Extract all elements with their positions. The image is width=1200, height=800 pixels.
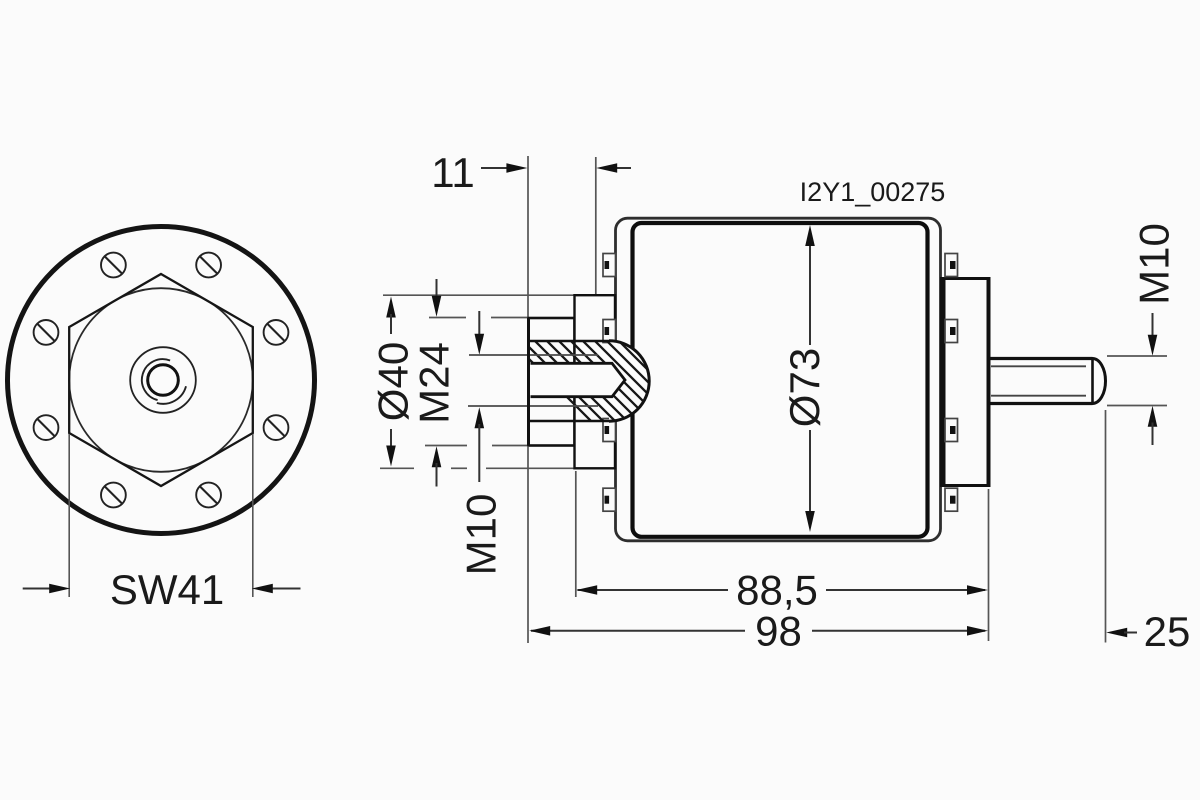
extension line boss right face (x=575.8) xyxy=(575,471,577,597)
right tab 3 xyxy=(945,419,958,442)
extension line boss top (y=295) xyxy=(383,294,574,296)
SW41 right arrow xyxy=(270,588,301,590)
dim 98 line and arrows xyxy=(531,630,745,632)
rear plate left edge xyxy=(942,280,946,484)
svg-text:Ø40: Ø40 xyxy=(370,342,417,421)
shaft end dome xyxy=(1093,359,1106,404)
motor body outer outline xyxy=(616,218,941,541)
thread dome white fill xyxy=(609,341,649,421)
extension line flange left face (x=528) xyxy=(527,156,529,318)
screw 7 (292.5 deg) xyxy=(196,483,221,508)
dim M24 top arrow xyxy=(436,279,438,300)
shaft end face xyxy=(1091,359,1094,404)
rear plate xyxy=(942,279,989,486)
hub outer circle xyxy=(130,347,196,413)
dim M24 bottom arrow xyxy=(432,446,442,467)
extension line shaft tip (x=1105.5) xyxy=(1105,410,1107,643)
svg-text:Ø73: Ø73 xyxy=(781,348,828,427)
inscribed circle of hex xyxy=(69,288,253,472)
hub thread arc outer xyxy=(157,386,186,404)
thread cylinder bottom edge xyxy=(529,420,610,422)
M10 shaft ext line top xyxy=(1107,355,1167,357)
dim 88,5 line and arrows xyxy=(578,589,729,591)
screw 5 (202.5 deg) xyxy=(34,415,59,440)
svg-text:M10: M10 xyxy=(458,494,505,576)
screw 1 (22.5 deg) xyxy=(264,320,289,345)
svg-text:98: 98 xyxy=(755,608,802,655)
flange plate xyxy=(529,318,575,446)
screw 8 (337.5 deg) xyxy=(264,415,289,440)
thread hatch xyxy=(498,328,814,440)
extension line boss bottom (y=468.3) xyxy=(380,467,414,469)
left tab 2 xyxy=(603,320,616,343)
flange outer circle xyxy=(8,227,315,534)
rear plate right edge xyxy=(987,277,991,487)
screw 3 (112.5 deg) xyxy=(101,253,126,278)
dim D73 line xyxy=(809,240,811,345)
left tab 4 xyxy=(603,488,616,511)
thread dome outline xyxy=(609,341,649,421)
thread root line bottom xyxy=(468,405,598,407)
M10 shaft ext line bottom xyxy=(1107,405,1167,407)
svg-text:11: 11 xyxy=(431,149,475,196)
right tab 1 xyxy=(945,254,958,277)
shaft thread root bottom xyxy=(991,395,1086,397)
shaft bottom edge xyxy=(990,402,1093,405)
svg-text:I2Y1_00275: I2Y1_00275 xyxy=(800,177,946,207)
svg-text:25: 25 xyxy=(1144,608,1191,655)
dim D73 bottom arrow xyxy=(805,511,815,532)
screw 2 (67.5 deg) xyxy=(196,253,221,278)
SW41 extension line left xyxy=(68,434,70,597)
dim 11 right arrow xyxy=(614,167,631,169)
dim D73 top arrow xyxy=(805,225,815,246)
shaft top edge xyxy=(990,357,1093,360)
svg-text:SW41: SW41 xyxy=(110,566,224,613)
svg-text:M10: M10 xyxy=(1131,223,1178,305)
dim M10 left top arrow xyxy=(478,311,480,338)
motor body inner thick outline xyxy=(633,223,928,537)
dim D40 bottom arrow xyxy=(390,429,392,449)
screw 4 (157.5 deg) xyxy=(34,320,59,345)
bore xyxy=(531,363,626,396)
SW41 extension line right xyxy=(252,434,254,597)
hub thread arc inner xyxy=(142,359,170,400)
thread cylinder top edge xyxy=(529,340,610,342)
dim 11 left arrow xyxy=(481,167,510,169)
hub bore circle xyxy=(148,365,179,396)
right tab 4 xyxy=(945,488,958,511)
left tab 3 xyxy=(603,419,616,442)
M10 right top arrow xyxy=(1152,313,1154,339)
flange left face redraw xyxy=(527,318,530,446)
hex nut xyxy=(69,274,253,486)
extension line flange top dashed (y=317.5) xyxy=(429,317,466,319)
screw 6 (247.5 deg) xyxy=(101,483,126,508)
dim 25 arrow xyxy=(1106,628,1127,638)
extension line body front face (x=595.8) xyxy=(595,157,597,295)
dim D40 top arrow xyxy=(386,297,396,318)
SW41 left arrow xyxy=(23,588,53,590)
extension line plate right face (x=988.5) xyxy=(988,489,990,641)
svg-text:M24: M24 xyxy=(411,342,458,424)
left tab 1 xyxy=(603,254,616,277)
boss D40 xyxy=(575,295,616,468)
shaft thread root top xyxy=(991,365,1086,367)
right tab 2 xyxy=(945,320,958,343)
thread root line top xyxy=(469,354,598,356)
svg-text:88,5: 88,5 xyxy=(736,567,818,614)
M10 right bottom arrow xyxy=(1148,406,1158,427)
dim M10 left bottom arrow xyxy=(475,407,485,428)
extension line flange bottom dashed (y=445.5) xyxy=(425,445,467,447)
